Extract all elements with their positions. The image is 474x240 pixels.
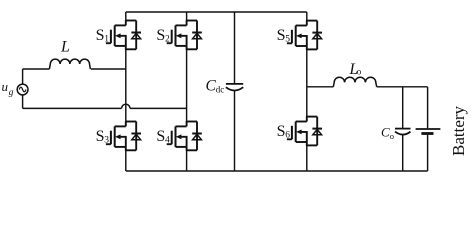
svg-text:S: S — [156, 128, 165, 145]
wire: S2 drain to rail — [186, 12, 188, 21]
svg-text:S: S — [96, 27, 105, 44]
wire: S1 drain to rail — [125, 12, 127, 21]
svg-text:L: L — [60, 39, 70, 56]
wire: bottom DC rail — [126, 170, 428, 172]
wire: S5 drain to rail — [306, 12, 308, 21]
svg-text:5: 5 — [285, 34, 290, 44]
inductor Lo — [333, 77, 376, 87]
wire: source top lead up — [22, 69, 24, 84]
wire hop over leg 1 — [122, 104, 130, 108]
svg-text:4: 4 — [165, 135, 170, 145]
wire: hop to leg 2 midpoint — [130, 107, 187, 109]
transistor S6 (MOSFET with body diode) — [287, 116, 322, 146]
wire: C_o branch down from output wire — [402, 87, 404, 128]
wire: source to inductor L — [23, 68, 50, 70]
wire: source bottom lead down — [22, 95, 24, 109]
svg-text:g: g — [9, 88, 14, 98]
svg-text:3: 3 — [104, 135, 109, 145]
wire: C_o to bottom rail — [402, 135, 404, 171]
inductor L — [49, 59, 90, 69]
svg-text:2: 2 — [165, 34, 170, 44]
svg-text:o: o — [357, 67, 362, 77]
transistor S3 (MOSFET with body diode) — [106, 121, 141, 151]
wire: leg 1 vertical S1 source to S3 drain — [125, 46, 127, 122]
wire: return wire to hop — [23, 107, 122, 109]
battery — [416, 129, 441, 134]
wire: inductor Lo to battery branch — [377, 86, 428, 88]
wire: top DC rail — [126, 11, 307, 13]
wire: C_dc branch from top rail — [234, 12, 236, 83]
wire: leg 3 vertical S5 source to S6 drain — [306, 46, 308, 117]
transistor S2 (MOSFET with body diode) — [167, 20, 202, 50]
svg-text:6: 6 — [285, 130, 290, 140]
wire: leg 3 midpoint to inductor Lo — [307, 86, 334, 88]
capacitor C_o — [395, 129, 411, 135]
svg-text:u: u — [2, 79, 9, 94]
svg-text:S: S — [277, 123, 286, 140]
capacitor C_dc — [226, 84, 243, 91]
svg-text:S: S — [156, 27, 165, 44]
wire: leg 3 below S6 to bottom rail — [306, 145, 308, 171]
svg-text:dc: dc — [216, 85, 225, 95]
wire: C_dc to bottom rail — [234, 91, 236, 171]
svg-text:Battery: Battery — [449, 105, 468, 156]
AC source u_g — [17, 84, 28, 95]
svg-text:S: S — [277, 27, 286, 44]
svg-text:o: o — [390, 131, 394, 141]
transistor S4 (MOSFET with body diode) — [167, 121, 202, 151]
wire: battery to bottom rail — [427, 135, 429, 171]
transistor S1 (MOSFET with body diode) — [106, 20, 141, 50]
wire: leg 2 below S4 to bottom rail — [186, 150, 188, 171]
wire: inductor L to leg 1 midpoint — [91, 68, 126, 70]
wire: battery branch down from output wire — [427, 87, 429, 128]
wire: leg 1 below S3 to bottom rail — [125, 150, 127, 171]
svg-text:S: S — [96, 128, 105, 145]
svg-text:1: 1 — [104, 34, 109, 44]
wire: leg 2 vertical S2 source to S4 drain — [186, 46, 188, 122]
svg-text:C: C — [381, 125, 390, 140]
transistor S5 (MOSFET with body diode) — [287, 20, 322, 50]
